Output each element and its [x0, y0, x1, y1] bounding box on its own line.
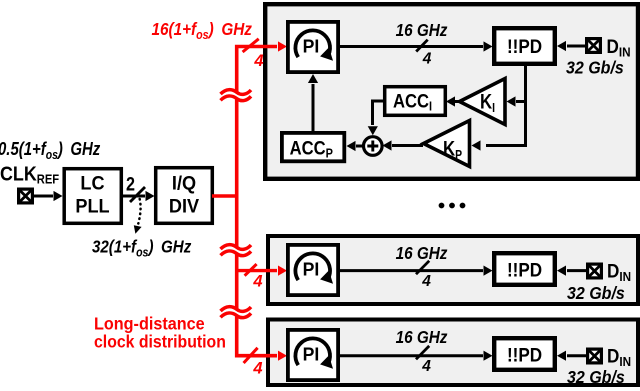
svg-text:!!PD: !!PD [507, 36, 542, 57]
arrowhead red into PI lane2 [278, 266, 287, 276]
svg-text:16 GHz: 16 GHz [396, 327, 448, 347]
wire DIN to PD lane2 [567, 269, 586, 272]
wire LC PLL to I/Q DIV [123, 195, 145, 198]
wire CLKREF to LC PLL [34, 195, 53, 198]
block PD lane3 [494, 338, 555, 370]
wire KI to ACCI [455, 100, 459, 103]
summer plus [364, 137, 383, 156]
svg-text:I/Q: I/Q [172, 172, 196, 194]
port CLKREF xbox [19, 189, 33, 203]
wire DIN to PD lane1 [567, 45, 585, 48]
svg-text:!!PD: !!PD [507, 260, 542, 281]
dotted arrow to 32GHz label [138, 199, 140, 224]
svg-text:4: 4 [253, 52, 263, 70]
wire red I/Q DIV output to trunk [212, 194, 238, 197]
wire KP to summer [392, 144, 423, 147]
wire summer to ACCP [356, 145, 363, 148]
block PI lane2 [288, 245, 338, 295]
wire PD down lane1 [486, 66, 526, 146]
wire DIN to PD lane3 [567, 354, 586, 357]
slash bus-4 lane3 [416, 346, 429, 359]
svg-text:!!PD: !!PD [507, 345, 542, 366]
block LC PLL [64, 169, 121, 224]
slash red bus-4 lane2 [245, 264, 257, 276]
svg-text:DIV: DIV [169, 195, 200, 217]
amp KI [460, 79, 506, 125]
break symbol 3 [221, 307, 252, 318]
svg-text:4: 4 [421, 358, 431, 375]
block ACCP [282, 133, 344, 161]
svg-text:4: 4 [252, 359, 262, 377]
block PI lane1 [288, 22, 338, 72]
svg-text:32 Gb/s: 32 Gb/s [566, 58, 624, 78]
wire red branch to lane2 [237, 269, 277, 272]
lane box lane2 (middle receiver) [268, 236, 638, 304]
svg-text:16 GHz: 16 GHz [396, 243, 448, 263]
dots ellipsis [439, 203, 466, 209]
arrowhead into KP [472, 140, 481, 150]
wire PI to PD lane3 [340, 354, 483, 357]
svg-text:4: 4 [421, 273, 431, 290]
block ACCI [385, 87, 446, 116]
lane box lane1 (top receiver) [265, 4, 638, 179]
port DIN xbox lane3 [588, 349, 602, 363]
amp KP [424, 121, 470, 167]
block PD lane1 [494, 28, 555, 64]
wire PI to PD lane1 [340, 45, 483, 48]
svg-text:clock distribution: clock distribution [94, 332, 226, 352]
svg-text:4: 4 [252, 273, 262, 291]
slash red bus-4 lane3 [244, 348, 258, 363]
svg-text:4: 4 [422, 51, 432, 68]
break symbol 2 [221, 245, 252, 256]
svg-text:LC: LC [80, 172, 105, 194]
port DIN xbox lane2 [588, 264, 602, 278]
wire PI to PD lane2 [340, 269, 483, 272]
port DIN xbox lane1 [587, 39, 601, 53]
wire to KI [516, 100, 526, 103]
arrowhead red into PI lane3 [278, 351, 287, 361]
svg-text:ACCI: ACCI [393, 90, 432, 113]
svg-text:32 Gb/s: 32 Gb/s [567, 283, 625, 303]
svg-text:PLL: PLL [75, 195, 109, 217]
slash bus-4 lane2 [416, 261, 429, 274]
break symbol 1 [221, 90, 252, 101]
wire ACCI to summer [373, 101, 384, 125]
slash red bus-4 lane1 [243, 39, 259, 52]
lane box lane3 (bottom receiver) [268, 320, 638, 386]
block PI lane3 [288, 330, 338, 380]
slash bus-4 lane1 [416, 40, 428, 52]
wire red clock trunk [237, 47, 277, 356]
slash bus-2 [130, 187, 145, 202]
svg-text:32 Gb/s: 32 Gb/s [567, 367, 625, 387]
svg-text:16 GHz: 16 GHz [396, 20, 448, 40]
svg-text:2: 2 [126, 173, 135, 195]
block I/Q DIV [156, 168, 213, 224]
arrowhead red into PI lane1 [278, 41, 287, 51]
wire ACCP to PI [312, 84, 315, 131]
block PD lane2 [494, 253, 555, 285]
